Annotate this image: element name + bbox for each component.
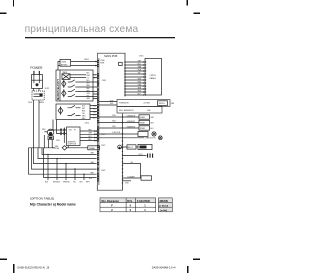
wire bus to box A (99, 102, 117, 106)
svg-text:CN41: CN41 (102, 80, 106, 82)
panel connector pins (143, 61, 146, 95)
relay RY1 coil (62, 81, 66, 87)
wire relay box stubs (78, 106, 98, 118)
svg-text:CN3: CN3 (69, 130, 72, 132)
svg-text:DRAIN: DRAIN (160, 199, 168, 203)
option table text (102, 199, 169, 212)
svg-text:GRN: GRN (93, 111, 96, 113)
wire nest row 1 (42, 148, 97, 155)
svg-text:DA68-51822A REV(0.4) 19: DA68-51822A REV(0.4) 19 (17, 266, 49, 270)
connector CN10 row labels (87, 73, 91, 101)
svg-text:DVL: DVL (127, 199, 133, 203)
bus pin pairs (97, 60, 98, 182)
svg-text:GRN: GRN (87, 98, 90, 100)
wire inverter feed 1 (53, 120, 67, 131)
main harness bus (96, 53, 98, 185)
relay RY1 contact b (68, 85, 78, 87)
noise filter Z1 element (40, 93, 43, 96)
svg-text:GRY: GRY (87, 83, 90, 85)
wire lamp branch (52, 147, 55, 149)
svg-text:PANEL: PANEL (150, 77, 157, 80)
door switch SW1 (62, 146, 67, 150)
svg-text:BLU: BLU (89, 136, 92, 138)
svg-text:GRY: GRY (151, 122, 154, 124)
svg-text:GRY: GRY (138, 60, 141, 62)
label wire colors row (45, 182, 90, 184)
svg-text:D/SENSOR: D/SENSOR (127, 115, 136, 117)
label inverter internals (69, 130, 77, 132)
power plug P1 body (32, 75, 43, 89)
wire inverter feed 2 (57, 120, 67, 134)
label bus pin colors (93, 74, 97, 119)
label CN50 small box (119, 62, 123, 65)
option table header shading (100, 198, 156, 203)
relay box U2 outline (56, 104, 90, 120)
svg-text:Div. Character: Div. Character (102, 199, 119, 203)
svg-text:M(s Character a) Model name: M(s Character a) Model name (30, 203, 76, 207)
control panel U4 box (145, 58, 162, 95)
label harness wire colors (138, 60, 142, 95)
heater H1 row (123, 155, 147, 157)
svg-text:SCR: SCR (45, 88, 50, 90)
terminal block TB1 (88, 146, 100, 150)
sensor F row (99, 122, 139, 124)
svg-text:SN5: SN5 (112, 126, 115, 128)
svg-text:(OPTION TABLE): (OPTION TABLE) (30, 197, 54, 201)
svg-text:GRY: GRY (82, 108, 85, 110)
wire aux right (123, 180, 132, 182)
fan motor row (99, 133, 138, 135)
relay RY1 contact a (68, 80, 78, 82)
relay RY2 contact b (68, 113, 79, 115)
svg-text:WHT: WHT (89, 133, 92, 135)
svg-text:BRN: BRN (82, 118, 85, 120)
wire plug to filter N (38, 88, 40, 91)
svg-text:CN70: CN70 (139, 56, 143, 58)
relay RY2a contact a (68, 89, 78, 91)
wire nest row 5 (29, 148, 97, 174)
svg-text:F-MOTOR: F-MOTOR (112, 132, 121, 134)
wire plug internal L (33, 75, 35, 84)
svg-text:CN75: CN75 (101, 145, 105, 147)
svg-text:MAIN PCB: MAIN PCB (104, 54, 117, 58)
svg-text:BRN: BRN (39, 102, 44, 104)
svg-text:WHT: WHT (93, 77, 96, 79)
svg-text:WHT/BLU: WHT/BLU (53, 182, 61, 184)
wire lamp down 1 (48, 140, 50, 148)
svg-text:YEL: YEL (73, 182, 76, 184)
svg-text:D/SW: D/SW (55, 148, 60, 150)
svg-text:BLU: BLU (82, 105, 85, 107)
svg-text:CN12: CN12 (85, 122, 90, 124)
drain heater row (123, 177, 142, 179)
sensor block box B (117, 107, 162, 114)
wire bus bottom U loop (97, 185, 122, 190)
node plug junction (36, 83, 39, 86)
relay RY2 coil (58, 108, 63, 114)
inverter PCB U3 outline (67, 127, 81, 146)
wire panel harness (125, 62, 144, 95)
load connector strip CN75 (122, 114, 124, 187)
wire AC line live (58, 62, 98, 71)
wire plug internal N (38, 75, 40, 84)
svg-text:(or Model): (or Model) (159, 205, 169, 207)
fuse F1 row (122, 146, 139, 148)
svg-text:D/SNR: D/SNR (140, 117, 146, 119)
svg-text:CN76: CN76 (101, 170, 105, 172)
svg-text:D/DRAIN: D/DRAIN (128, 175, 136, 178)
svg-text:+: + (42, 132, 43, 134)
label nest right ends (91, 153, 94, 175)
svg-text:GRN: GRN (138, 66, 141, 68)
svg-text:BLK: BLK (93, 74, 96, 76)
label CN40 (100, 60, 105, 64)
sensor D row (99, 116, 139, 118)
relay RY2 contact a (68, 105, 79, 107)
wire relay to rows (78, 82, 84, 97)
wire inverter to door row (67, 146, 69, 148)
svg-text:BRN: BRN (138, 87, 141, 89)
svg-text:YEL: YEL (138, 72, 141, 74)
svg-text:BLU: BLU (151, 128, 154, 130)
svg-text:BLK: BLK (138, 93, 141, 95)
svg-text:WHT: WHT (138, 78, 141, 80)
wire plug to filter L (33, 88, 35, 91)
svg-text:GRN/YEL: GRN/YEL (63, 182, 70, 184)
power plug P1 divider (32, 79, 43, 81)
label inverter row wires (89, 129, 93, 141)
sensor block box A (117, 100, 170, 107)
wire lamp feed left (44, 131, 47, 133)
svg-text:P1: P1 (74, 130, 76, 132)
wire neutral drop (38, 100, 40, 148)
condenser fan row (99, 137, 144, 139)
svg-text:F-HEATER: F-HEATER (137, 199, 150, 203)
svg-text:YEL: YEL (93, 108, 96, 110)
wire bridge to panel connector (97, 53, 125, 58)
svg-text:SN1: SN1 (110, 103, 113, 105)
main PCB U1 outline (56, 70, 93, 101)
svg-text:REF/LP: REF/LP (128, 147, 133, 149)
relay RY2a coil (62, 90, 66, 96)
label door switch (55, 146, 60, 150)
fan motor M1 (152, 132, 156, 136)
wire inverter rows (80, 131, 98, 141)
defrost heater block (138, 144, 152, 149)
svg-text:WHT: WHT (91, 153, 94, 155)
wire nest row 2 (38, 148, 97, 159)
relay RY2a contact b (68, 94, 78, 96)
node AC pins (95, 61, 97, 67)
svg-text:SN4: SN4 (112, 121, 115, 123)
label FRE LAMP (42, 129, 46, 133)
svg-text:BLU: BLU (138, 63, 141, 65)
svg-text:R/SNR: R/SNR (140, 128, 146, 130)
noise filter Z1 box (32, 91, 44, 100)
wire T1 to connector 1 (70, 74, 86, 76)
wire PCB row stubs (84, 75, 98, 99)
svg-text:SNR/TH: SNR/TH (159, 103, 166, 105)
svg-text:принципиальная схема: принципиальная схема (25, 24, 139, 35)
label CN A/TRNS box (60, 59, 71, 66)
svg-text:BLK: BLK (87, 73, 90, 75)
svg-text:FRE: FRE (55, 146, 58, 148)
svg-text:BRN: BRN (91, 173, 94, 175)
wire filter internal 1 (34, 93, 40, 95)
svg-text:WHT: WHT (86, 182, 90, 184)
svg-text:WHT: WHT (84, 59, 89, 61)
svg-text:MAIN PCB ASS’Y: MAIN PCB ASS’Y (56, 78, 60, 100)
panel connector CN30 column (124, 59, 126, 97)
sensor R row (99, 127, 139, 129)
label inverter PCB (67, 141, 76, 145)
svg-text:BLK: BLK (28, 102, 33, 104)
svg-text:POWER: POWER (30, 66, 43, 70)
condenser fan M2 (158, 136, 162, 140)
transformer T1 (62, 74, 70, 80)
svg-text:INVERTER: INVERTER (67, 141, 76, 143)
svg-text:PNK: PNK (138, 90, 141, 92)
svg-text:BLK: BLK (89, 139, 92, 141)
wire T1 to connector 2 (70, 77, 86, 79)
wire nest row 4 (32, 148, 97, 169)
power plug P1 prongs (33, 71, 39, 75)
connector CN11 row labels (82, 105, 86, 120)
svg-text:SN3: SN3 (112, 115, 115, 117)
main PCB U1 left strip (59, 70, 61, 101)
wire nest row 6 (44, 148, 97, 178)
svg-text:+5V GND: +5V GND (143, 102, 151, 104)
svg-text:CN30: CN30 (61, 61, 67, 63)
option table grid (100, 198, 172, 212)
svg-text:WHT: WHT (151, 117, 154, 119)
svg-text:WHT: WHT (87, 75, 90, 77)
connector CN2 pins (94, 130, 97, 141)
wire AC line neutral (58, 65, 98, 67)
svg-text:(or Std): (or Std) (160, 209, 167, 212)
svg-text:BLU: BLU (93, 117, 96, 119)
lamp socket box (48, 136, 54, 140)
svg-text:F/SENSOR: F/SENSOR (127, 121, 136, 123)
wire lamp feed (43, 135, 45, 148)
svg-text:YEL: YEL (82, 113, 85, 115)
svg-text:CNTRL: CNTRL (149, 75, 157, 77)
svg-text:T/SENSOR: T/SENSOR (119, 102, 129, 104)
title rule (25, 37, 175, 38)
wire nest row 3 (34, 100, 97, 164)
label CN30 SN1 (110, 101, 114, 105)
wire filter internal 2 (34, 96, 40, 98)
svg-text:CN01: CN01 (56, 140, 60, 142)
thermo row (123, 164, 141, 179)
svg-text:WHT: WHT (93, 114, 96, 116)
svg-text:A/TRNS: A/TRNS (61, 63, 68, 66)
connector CN1 pins (60, 128, 65, 135)
svg-text:COMP’SOR: COMP’SOR (67, 144, 76, 146)
ref lamp LP2 (118, 145, 122, 149)
svg-text:SN2 A/SENSOR: SN2 A/SENSOR (119, 109, 134, 112)
wire label stubs (48, 154, 84, 180)
svg-text:R/SENSOR: R/SENSOR (127, 126, 136, 128)
node nest junctions (47, 154, 84, 175)
wire door switch row (29, 147, 89, 149)
wire lamp down 2 (51, 140, 53, 148)
svg-text:GRN: GRN (91, 162, 94, 164)
freezer lamp LP1 (47, 129, 53, 135)
svg-text:DA99-00494B 0.6 •4: DA99-00494B 0.6 •4 (152, 265, 176, 269)
